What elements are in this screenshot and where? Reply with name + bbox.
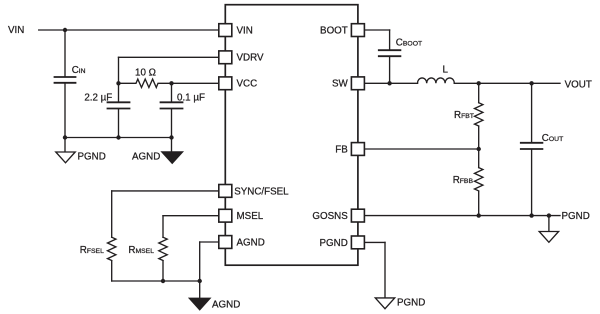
pin GOSNS — [351, 209, 364, 222]
svg-text:2.2 µF: 2.2 µF — [84, 92, 112, 103]
node PGND label right — [562, 211, 590, 222]
pin VCC — [219, 77, 232, 90]
label pin FB — [335, 144, 348, 155]
capacitor CIN — [55, 77, 76, 83]
svg-text:VIN: VIN — [237, 25, 253, 36]
junction ground bus at CIN — [63, 135, 67, 139]
wire 0.1uF top drop — [171, 83, 173, 101]
wire AGND stub near caps — [171, 138, 173, 153]
label pin SW — [332, 79, 349, 90]
wire left ground bus — [65, 137, 172, 139]
ground PGND left (open) — [56, 152, 75, 163]
svg-text:GOSNS: GOSNS — [312, 211, 348, 222]
wire 0.1uF bottom to ground bus — [171, 109, 173, 137]
svg-text:COUT: COUT — [542, 133, 563, 144]
value CIN — [72, 65, 86, 76]
svg-text:VOUT: VOUT — [565, 79, 592, 90]
inductor L — [418, 78, 455, 83]
capacitor CBOOT — [379, 50, 401, 56]
label pin VDRV — [237, 53, 265, 64]
svg-text:PGND: PGND — [78, 152, 106, 163]
wire RFBB bottom — [478, 191, 480, 215]
label pin MSEL — [237, 211, 264, 222]
capacitor COUT — [521, 143, 543, 149]
junction SW/RFBT — [477, 81, 481, 85]
wire MSEL lead — [163, 215, 221, 217]
wire VCC lead from R10 node — [172, 82, 222, 84]
wire RFBT bottom to FB node — [478, 126, 480, 149]
capacitor 0.1uF — [161, 102, 183, 108]
junction AGND bus at AGND drop — [198, 279, 202, 283]
wire PGND stub right — [548, 216, 550, 232]
wire CIN bottom to ground bus — [64, 84, 66, 138]
svg-text:PGND: PGND — [562, 211, 590, 222]
label pin GOSNS — [312, 211, 348, 222]
value RFBT — [454, 110, 474, 121]
value COUT — [542, 133, 563, 144]
ground AGND bottom (filled) — [189, 298, 210, 309]
svg-text:FB: FB — [335, 144, 348, 155]
svg-text:VIN: VIN — [8, 25, 24, 36]
svg-text:AGND: AGND — [212, 300, 240, 311]
svg-text:SW: SW — [332, 79, 349, 90]
label pin AGND — [237, 237, 265, 248]
wire SYNC/FSEL lead — [112, 190, 221, 192]
svg-text:CBOOT: CBOOT — [396, 37, 422, 48]
svg-text:L: L — [443, 64, 449, 75]
wire RFBT top — [478, 83, 480, 102]
svg-text:RFBT: RFBT — [454, 110, 474, 121]
wire PGND stub left — [64, 138, 66, 153]
wire AGND drop to ground — [199, 242, 201, 298]
wire inductor to VOUT — [454, 82, 560, 84]
wire CIN top drop — [64, 30, 66, 76]
junction ground bus at 0.1uF — [169, 135, 173, 139]
junction VIN/CIN — [63, 28, 67, 32]
pin PGND — [351, 236, 364, 249]
resistor RFBB — [475, 168, 483, 191]
wire 2.2uF bottom to ground bus — [118, 109, 120, 137]
junction VOUT/COUT — [529, 81, 533, 85]
wire COUT bottom — [531, 150, 533, 216]
svg-text:CIN: CIN — [72, 65, 86, 76]
ground AGND near caps (filled) — [162, 152, 183, 163]
value 0.1 uF — [177, 92, 205, 103]
junction VDRV/R10/2.2uF — [116, 81, 120, 85]
label pin PGND — [319, 238, 347, 249]
value CBOOT — [396, 37, 422, 48]
wire CBOOT bottom to SW node — [389, 57, 391, 83]
node AGND label near caps — [132, 152, 160, 163]
pin VDRV — [219, 51, 232, 64]
pin VIN — [219, 24, 232, 37]
junction FB node — [477, 147, 481, 151]
wire VDRV lead — [119, 56, 222, 58]
pin SW — [351, 77, 364, 90]
wire BOOT lead — [362, 29, 390, 31]
node VIN label — [8, 25, 24, 36]
svg-text:RFSEL: RFSEL — [80, 245, 104, 256]
svg-text:RMSEL: RMSEL — [128, 245, 154, 256]
ground PGND right (open) — [539, 232, 558, 243]
value L — [443, 64, 449, 75]
label pin VCC — [237, 79, 258, 90]
node PGND label left — [78, 152, 106, 163]
wire RFSEL bottom — [111, 261, 113, 281]
svg-text:SYNC/FSEL: SYNC/FSEL — [234, 186, 289, 197]
capacitor 2.2uF — [108, 102, 130, 108]
svg-text:MSEL: MSEL — [237, 211, 264, 222]
wire COUT top drop — [531, 83, 533, 142]
value RFBB — [453, 175, 474, 186]
op-amp U1 — [225, 5, 358, 266]
wire PGND pin lead — [362, 241, 385, 243]
wire RMSEL bottom — [162, 261, 164, 281]
junction AGND bus at RMSEL — [161, 279, 165, 283]
wire GOSNS bus — [362, 215, 560, 217]
wire VIN net to pin VIN — [39, 29, 221, 31]
value 10 Ohm — [135, 67, 156, 78]
resistor RMSEL — [159, 237, 167, 260]
value RFSEL — [80, 245, 104, 256]
junction SW/CBOOT — [387, 81, 391, 85]
wire RFSEL top — [111, 191, 113, 237]
pin AGND — [219, 236, 232, 249]
label pin VIN — [237, 25, 253, 36]
pin SYNC/FSEL — [219, 185, 232, 198]
wire AGND pin lead — [200, 241, 221, 243]
svg-text:0.1 µF: 0.1 µF — [177, 92, 205, 103]
resistor RFBT — [475, 103, 483, 126]
value 2.2 uF — [84, 92, 112, 103]
svg-text:VDRV: VDRV — [237, 53, 265, 64]
pin FB — [351, 143, 364, 156]
svg-text:PGND: PGND — [319, 238, 347, 249]
junction ground bus at 2.2uF — [116, 135, 120, 139]
wire AGND bus bottom — [112, 280, 200, 282]
junction GOSNS/COUT — [529, 213, 533, 217]
node AGND label bottom — [212, 300, 240, 311]
wire RMSEL top — [162, 216, 164, 238]
node PGND label bottom — [397, 297, 425, 308]
junction GOSNS/RFBB — [477, 213, 481, 217]
node VOUT label — [565, 79, 592, 90]
svg-text:BOOT: BOOT — [320, 25, 348, 36]
svg-text:AGND: AGND — [237, 237, 265, 248]
svg-text:RFBB: RFBB — [453, 175, 474, 186]
wire SW lead to inductor — [362, 82, 418, 84]
svg-text:PGND: PGND — [397, 297, 425, 308]
svg-text:AGND: AGND — [132, 152, 160, 163]
junction GOSNS/PGND — [547, 213, 551, 217]
svg-text:VCC: VCC — [237, 79, 258, 90]
resistor RFSEL — [107, 237, 115, 260]
value RMSEL — [128, 245, 154, 256]
ground PGND bottom (open) — [375, 298, 394, 309]
wire PGND drop bottom — [384, 242, 386, 298]
junction R10/0.1uF/VCC — [169, 81, 173, 85]
pin MSEL — [219, 209, 232, 222]
svg-text:10 Ω: 10 Ω — [135, 67, 156, 78]
pin BOOT — [351, 24, 364, 37]
label pin SYNC/FSEL — [234, 186, 289, 197]
wire VDRV drop to R10 node — [118, 57, 120, 83]
resistor 10 Ohm — [119, 79, 172, 87]
wire CBOOT top drop — [389, 30, 391, 49]
wire FB lead — [362, 148, 479, 150]
wire 2.2uF top drop — [118, 83, 120, 101]
label pin BOOT — [320, 25, 348, 36]
wire RFBB top — [478, 149, 480, 168]
